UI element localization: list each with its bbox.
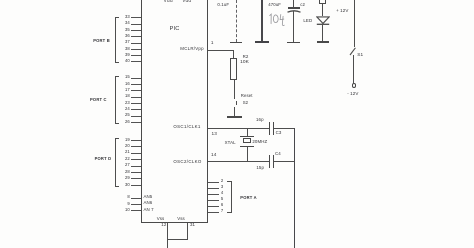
wire S2 to ground bbox=[234, 107, 235, 116]
label S1 bbox=[357, 53, 363, 58]
label OSC2/CLKO (pin 14 function) bbox=[173, 160, 201, 164]
PORT A group bracket bbox=[231, 181, 232, 214]
label 0.1uF bbox=[217, 3, 229, 7]
pin number 5 bbox=[221, 197, 223, 201]
vertical ground/return line at right bbox=[294, 128, 295, 248]
pin 39 stub wire bbox=[131, 55, 142, 56]
pin number 38 bbox=[110, 47, 130, 51]
label Vss (pin 12 ground) bbox=[157, 217, 165, 221]
pin number 9 bbox=[110, 202, 130, 206]
label Vdd (pin 11 supply, top cut) bbox=[164, 0, 173, 4]
capacitor 0.1uF lead (dashed, from Vdd rail above) bbox=[236, 0, 237, 42]
pin 16 stub wire bbox=[131, 84, 142, 85]
label S2 bbox=[243, 101, 248, 105]
pin 8 stub wire bbox=[131, 198, 142, 199]
pin 19 stub wire bbox=[131, 140, 142, 141]
capacitor C2 top lead bbox=[293, 0, 294, 7]
pin 30 stub wire bbox=[131, 185, 142, 186]
ground bar below 470uF bbox=[255, 41, 270, 43]
pin number 27 bbox=[110, 163, 130, 167]
pin number 23 bbox=[110, 101, 130, 105]
pin 18 stub wire bbox=[131, 97, 142, 98]
pin number 40 bbox=[110, 59, 130, 63]
pin 5 stub wire bbox=[208, 200, 220, 201]
label LED bbox=[303, 19, 312, 23]
label PIC (chip name) bbox=[170, 27, 180, 33]
wire +12V rail to switch S1 bbox=[354, 0, 355, 47]
label 16p bbox=[256, 118, 264, 122]
label PORT C bbox=[90, 98, 107, 102]
pin number 24 bbox=[110, 107, 130, 111]
pin 21 stub wire bbox=[131, 153, 142, 154]
pin 22 stub wire bbox=[131, 159, 142, 160]
pin number 4 bbox=[221, 191, 223, 195]
capacitor C2 top plate bbox=[288, 7, 300, 8]
pin 7 stub wire bbox=[208, 212, 220, 213]
label -12V bbox=[347, 92, 358, 97]
resistor body above LED (top cut) bbox=[319, 0, 326, 4]
capacitor C4 left plate bbox=[269, 155, 270, 168]
label 15p bbox=[256, 166, 264, 170]
label +12V bbox=[336, 9, 348, 14]
capacitor C4 right plate bbox=[273, 155, 274, 168]
wire pin14 OSC2 to C4 bbox=[208, 161, 269, 162]
wire Vss junction to bottom edge bbox=[167, 240, 168, 248]
pin number 30 bbox=[110, 183, 130, 187]
label PORT A bbox=[240, 196, 257, 200]
wire pin31 Vss down bbox=[187, 223, 188, 239]
pin 24 stub wire bbox=[131, 109, 142, 110]
pin number 17 bbox=[110, 88, 130, 92]
pin 9 stub wire bbox=[131, 204, 142, 205]
wire S1 to terminal bbox=[353, 55, 354, 83]
wire C4 to ground line bbox=[274, 161, 295, 162]
crystal X1 top lead bbox=[247, 128, 248, 136]
pin 27 stub wire bbox=[131, 166, 142, 167]
pin number 36 bbox=[110, 34, 130, 38]
label 470uF bbox=[268, 3, 281, 7]
pin number 20 bbox=[110, 144, 130, 148]
pin 34 stub wire bbox=[131, 24, 142, 25]
pin 23 stub wire bbox=[131, 103, 142, 104]
capacitor C3 left plate bbox=[269, 122, 270, 135]
pin 28 stub wire bbox=[131, 172, 142, 173]
PORT D group bracket bbox=[115, 138, 116, 187]
LED D1 symbol bbox=[316, 16, 330, 26]
pin number 31 bbox=[190, 223, 195, 227]
label PORT B bbox=[93, 39, 110, 43]
pin number 33 bbox=[110, 15, 130, 19]
pin number 3 bbox=[221, 185, 223, 189]
pin number 37 bbox=[110, 40, 130, 44]
handwritten annotation 104 bbox=[266, 13, 286, 27]
pin number 16 bbox=[110, 82, 130, 86]
label Reset bbox=[241, 94, 253, 98]
pin number 1 bbox=[211, 41, 214, 46]
PORT C group bracket bbox=[115, 76, 116, 124]
terminal circle -12V bbox=[352, 83, 357, 88]
capacitor 470uF lead bbox=[261, 0, 263, 41]
label MCLR/Vpp (pin 1 function) bbox=[180, 47, 203, 51]
ground bar below C2 bbox=[287, 42, 300, 44]
pin number 25 bbox=[110, 113, 130, 117]
wire pin1 MCLR to R2 bbox=[208, 50, 235, 51]
pin number 34 bbox=[110, 21, 130, 25]
label AN7 (pin 10 function) bbox=[144, 208, 154, 212]
pin number 6 bbox=[221, 203, 223, 207]
resistor R2 body bbox=[230, 58, 237, 80]
pin number 29 bbox=[110, 176, 130, 180]
pin 10 stub wire bbox=[131, 210, 142, 211]
label C3 bbox=[276, 131, 282, 135]
pin number 2 bbox=[221, 179, 223, 183]
label c2 bbox=[300, 3, 305, 7]
label OSC1/CLK1 (pin 13 function) bbox=[173, 125, 200, 129]
pin number 8 bbox=[110, 195, 130, 199]
pin number 12 bbox=[161, 223, 166, 227]
pin number 10 bbox=[110, 208, 130, 212]
pin 3 stub wire bbox=[208, 188, 220, 189]
label AN6 (pin 9 function) bbox=[144, 201, 153, 205]
capacitor C2 bottom lead bbox=[293, 11, 294, 41]
pin 6 stub wire bbox=[208, 206, 220, 207]
label R2 bbox=[243, 55, 249, 59]
wire C3 to ground line bbox=[274, 128, 295, 129]
IC U1 PIC microcontroller body bbox=[141, 0, 208, 223]
label 10K bbox=[240, 61, 249, 66]
pin number 14 bbox=[211, 153, 216, 158]
pin 26 stub wire bbox=[131, 122, 142, 123]
ground bar below 0.1uF bbox=[230, 42, 242, 44]
pin number 35 bbox=[110, 28, 130, 32]
pin number 26 bbox=[110, 120, 130, 124]
wire joining Vss pins bbox=[167, 239, 188, 240]
crystal X1 body bbox=[243, 138, 252, 143]
pin 20 stub wire bbox=[131, 146, 142, 147]
pin number 19 bbox=[110, 138, 130, 142]
ground bar below S2 bbox=[227, 116, 242, 118]
pin 15 stub wire bbox=[131, 78, 142, 79]
label PORT D bbox=[95, 157, 112, 161]
wire resistor to LED anode bbox=[322, 4, 323, 16]
PORT B group bracket bbox=[115, 17, 116, 64]
pin number 39 bbox=[110, 53, 130, 57]
pin number 21 bbox=[110, 150, 130, 154]
label C4 bbox=[275, 152, 281, 156]
capacitor C2 bottom plate bbox=[287, 9, 301, 13]
crystal X1 bottom lead bbox=[247, 147, 248, 161]
pin number 18 bbox=[110, 94, 130, 98]
label Vss (pin 31 ground) bbox=[177, 217, 185, 221]
wire pin13 OSC1 to C3 bbox=[208, 128, 269, 129]
pin 4 stub wire bbox=[208, 194, 220, 195]
pin 40 stub wire bbox=[131, 61, 142, 62]
pin number 28 bbox=[110, 170, 130, 174]
wire R2 to switch S2 bbox=[234, 80, 235, 100]
capacitor C3 right plate bbox=[273, 122, 274, 135]
pin 38 stub wire bbox=[131, 49, 142, 50]
switch S2 blade bbox=[236, 101, 237, 106]
pin 17 stub wire bbox=[131, 90, 142, 91]
pin 36 stub wire bbox=[131, 36, 142, 37]
crystal X1 bottom plate bbox=[240, 146, 254, 147]
crystal X1 top plate bbox=[240, 136, 254, 137]
ground bar below LED bbox=[317, 41, 329, 43]
label XTAL bbox=[225, 141, 236, 145]
pin 25 stub wire bbox=[131, 116, 142, 117]
pin number 15 bbox=[110, 75, 130, 79]
switch S1 blade bbox=[349, 47, 357, 56]
pin number 13 bbox=[212, 132, 217, 137]
label Vdd (pin 32 supply, top cut) bbox=[182, 0, 191, 4]
pin 33 stub wire bbox=[131, 17, 142, 18]
label AN5 (pin 8 function) bbox=[144, 195, 153, 199]
pin number 22 bbox=[110, 157, 130, 161]
pin 29 stub wire bbox=[131, 178, 142, 179]
pin number 7 bbox=[221, 209, 223, 213]
pin 2 stub wire bbox=[208, 182, 220, 183]
wire pin12 Vss down bbox=[167, 223, 168, 239]
label 20MHZ bbox=[252, 140, 267, 144]
wire LED cathode to ground bbox=[322, 25, 323, 41]
pin 35 stub wire bbox=[131, 30, 142, 31]
pin 37 stub wire bbox=[131, 43, 142, 44]
